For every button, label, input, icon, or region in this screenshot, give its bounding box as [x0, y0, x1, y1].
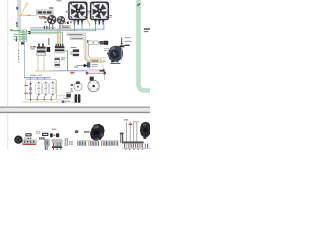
- label small text: [39, 16, 41, 17]
- fuse box text above: [30, 75, 36, 76]
- magenta end tick: [104, 72, 106, 75]
- label box B: [36, 131, 40, 133]
- text right rows: [64, 98, 70, 99]
- gray bar: [17, 0, 20, 32]
- magenta wire: [88, 72, 104, 75]
- inline connector box 1: [88, 41, 93, 44]
- purple component: [62, 100, 65, 103]
- ground arrows: [30, 100, 32, 101]
- text above fans: [57, 0, 62, 1]
- tan mark: [133, 121, 139, 122]
- compressor motor: [107, 46, 123, 63]
- sensor text: [125, 37, 131, 38]
- connector dark mate: [104, 41, 108, 45]
- K2 text right: [65, 51, 68, 52]
- gray bar C: [52, 140, 62, 143]
- FAN1 side text: [66, 11, 69, 13]
- wire arrow: [84, 64, 89, 67]
- motor label: [110, 63, 120, 64]
- red-brown stubs: [24, 84, 28, 87]
- bus wire green: [30, 29, 95, 32]
- relay F1: [36, 82, 42, 96]
- gray bar mark top: [16, 7, 18, 10]
- green box: [139, 0, 153, 91]
- inline connector box 2: [94, 41, 99, 44]
- gray label box 2: [70, 37, 86, 40]
- yellow label box: [90, 59, 100, 62]
- small bits E: [69, 141, 72, 145]
- stripes C: [53, 143, 54, 146]
- fuse box left column: [29, 81, 32, 96]
- label box A: [25, 133, 31, 136]
- yellow wire diagonal: [21, 2, 27, 15]
- green drop fan2: [94, 25, 97, 32]
- relay tall: [55, 58, 60, 68]
- left dashed wire: [18, 50, 20, 62]
- relay F2: [43, 82, 49, 96]
- FAN1 orange wire: [86, 19, 90, 26]
- fan left wire: [44, 18, 48, 21]
- fan left text red: [44, 17, 47, 18]
- page separator line 2: [0, 112, 150, 113]
- round fan M2: [57, 16, 65, 24]
- stripes below B: [45, 147, 46, 150]
- big fan FAN1: [69, 2, 87, 19]
- bus wire gray top: [30, 26, 55, 29]
- fuse box bottom pins: [29, 96, 32, 101]
- dark pointer: [15, 37, 18, 41]
- dark vertical short: [47, 38, 50, 45]
- relay F3: [50, 82, 56, 96]
- dark arrow 1: [27, 31, 30, 33]
- node below grid: [21, 42, 24, 44]
- dark component bottom: [66, 94, 70, 97]
- tan wire K1 drop 2: [43, 56, 46, 71]
- green text left: [13, 33, 18, 36]
- FAN1 pins: [74, 20, 75, 24]
- wire gray segment: [31, 14, 36, 17]
- cluster C blobs: [50, 133, 53, 137]
- blue text on wire: [74, 67, 78, 68]
- tan wire horizontal: [35, 70, 58, 73]
- tan wire bottom 0: [56, 94, 66, 97]
- right wire area: [125, 122, 128, 142]
- pin rail page2: [77, 140, 99, 143]
- blue wire mid: [76, 64, 91, 67]
- yellow wire horizontal: [19, 15, 27, 16]
- label box over bus: [61, 26, 71, 29]
- bus wire gray: [30, 32, 57, 35]
- label TW box: [37, 10, 54, 15]
- tan wire K1 drop 1: [37, 56, 40, 71]
- round fan M1 pins: [49, 24, 50, 29]
- connector K2 pins: [56, 44, 57, 47]
- pump P1 top: [73, 49, 79, 52]
- small gray bar: [124, 119, 128, 121]
- tan wire continuation: [87, 70, 104, 73]
- magenta source blob: [86, 72, 88, 75]
- inline connector dark: [100, 69, 105, 72]
- white box: [90, 63, 103, 70]
- FAN2 side text: [109, 15, 112, 16]
- bus wire blue: [30, 28, 104, 31]
- green box text: [137, 4, 138, 6]
- page 1 left border: [6, 0, 9, 106]
- green connector grid: [20, 30, 27, 41]
- round fan M1: [47, 15, 56, 24]
- pin row page2: [77, 141, 118, 145]
- colored bits: [39, 137, 41, 139]
- blue elbow into fuse box: [25, 76, 51, 79]
- red text on wire: [70, 72, 74, 73]
- K1 text: [30, 46, 32, 47]
- green vertical mid: [61, 32, 64, 44]
- small colored marks: [24, 138, 26, 140]
- text SC: [49, 7, 53, 9]
- left light wire: [17, 32, 20, 50]
- page separator line 1: [0, 107, 150, 108]
- sensor T1: [121, 37, 122, 44]
- relay K1: [38, 44, 40, 47]
- pump big: [88, 77, 99, 92]
- transistor Q1: [47, 47, 51, 52]
- connector K2 body: [55, 46, 65, 48]
- red line: [22, 144, 36, 145]
- connector cluster: [100, 41, 104, 45]
- connector bar right: [122, 141, 144, 143]
- tan bundle right: [84, 40, 106, 60]
- alternator blob: [90, 124, 105, 141]
- P1 text: [70, 52, 73, 53]
- stubs under line: [125, 149, 126, 150]
- dark bar C: [52, 146, 62, 148]
- red mark: [129, 124, 132, 125]
- tick T2: [46, 26, 47, 30]
- motor feed wires: [104, 47, 109, 50]
- page 2 left border: [6, 113, 9, 150]
- relay text: [61, 57, 66, 58]
- tick T1: [44, 26, 45, 30]
- text right of green box: [144, 28, 150, 29]
- gray posts D: [65, 138, 66, 146]
- pump small side marks: [71, 84, 73, 86]
- wire tan-red segment: [27, 15, 31, 16]
- wire label marks: [62, 22, 63, 24]
- tall post H: [120, 133, 121, 143]
- tan bundle left: [56, 30, 59, 46]
- cluster C text: [52, 129, 56, 130]
- gray bar B: [44, 139, 49, 146]
- blue drop fan2: [103, 25, 106, 30]
- fan left mark green: [44, 21, 46, 23]
- green drop fan1: [73, 25, 76, 32]
- blue component: [87, 62, 89, 67]
- left lavender wire: [23, 33, 26, 77]
- text G: [84, 131, 90, 132]
- tan wire bottom 2: [22, 101, 78, 104]
- round fan M2 pins: [59, 25, 60, 30]
- connector bar left: [22, 140, 36, 144]
- gray bar mark mid: [16, 22, 18, 24]
- gray label box 1: [67, 33, 86, 36]
- stripes right: [124, 144, 125, 148]
- motor M3: [14, 136, 22, 144]
- sensor drop wire: [120, 47, 123, 62]
- wire blue mid-right: [87, 41, 100, 44]
- bus wire green 2: [30, 31, 62, 34]
- label F: [75, 130, 78, 133]
- green wire left: [10, 30, 19, 31]
- compressor P2: [140, 122, 150, 139]
- thin line right: [122, 147, 150, 150]
- blue drop fan1: [81, 25, 84, 30]
- big fan FAN2: [91, 2, 109, 19]
- tan wire bottom 1: [56, 98, 62, 101]
- page separator gap: [0, 108, 150, 112]
- FAN2 pins: [95, 20, 96, 24]
- fuse box: [26, 80, 57, 100]
- green vertical right: [66, 50, 69, 70]
- blue wire long: [49, 69, 87, 72]
- yellow wire branch: [24, 4, 28, 9]
- connector dark bottom: [75, 94, 81, 103]
- pump small: [74, 83, 82, 91]
- dark arrow 2: [27, 32, 30, 34]
